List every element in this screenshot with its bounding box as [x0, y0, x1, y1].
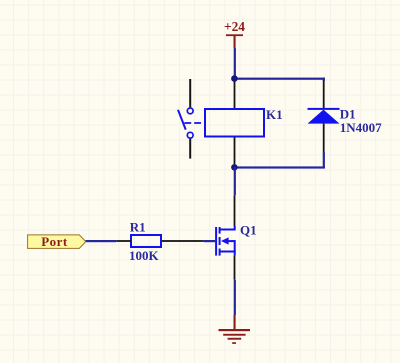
- relay K1 bottom pin: [234, 138, 236, 165]
- ground bar 4: [232, 342, 236, 344]
- ground bar 1: [219, 329, 251, 331]
- ground stub: [234, 315, 236, 330]
- svg-text:1N4007: 1N4007: [340, 120, 382, 135]
- resistor R1 body: [131, 235, 161, 247]
- wire port to resistor: [86, 240, 117, 242]
- node bottom junction: [231, 164, 238, 171]
- switch SW mechanical dashed link to relay: [184, 122, 205, 124]
- diode D1 triangle: [308, 110, 340, 124]
- svg-text:100K: 100K: [129, 248, 160, 263]
- wire junction to mosfet drain: [234, 167, 236, 195]
- svg-text:K1: K1: [266, 107, 283, 122]
- mosfet Q1 body lead: [228, 240, 235, 242]
- mosfet Q1 channel segment drain: [219, 227, 221, 234]
- mosfet Q1 body arrow: [221, 237, 229, 244]
- resistor R1 right pin: [161, 240, 204, 242]
- mosfet Q1 channel segment body: [219, 237, 221, 245]
- switch SW arm: [178, 110, 186, 130]
- diode D1 bottom pin: [323, 124, 325, 152]
- svg-text:+24: +24: [224, 19, 245, 34]
- relay K1 top pin: [234, 82, 236, 109]
- resistor R1 left pin: [116, 240, 131, 242]
- mosfet Q1 right vertical body-source connection: [234, 240, 236, 252]
- wire right bottom vertical: [323, 152, 325, 168]
- diode D1 top pin: [323, 81, 325, 109]
- mosfet Q1 channel segment source: [219, 249, 221, 256]
- wire source pin to ground blue: [234, 280, 236, 315]
- wire gate lead blue: [204, 240, 215, 242]
- relay K1 coil box: [205, 109, 264, 137]
- mosfet Q1 source lead: [220, 251, 236, 253]
- switch SW bottom contact circle: [187, 132, 193, 138]
- wire top horizontal junction to diode branch: [234, 78, 325, 80]
- mosfet Q1 gate bar: [215, 227, 217, 256]
- ground bar 3: [228, 338, 242, 340]
- mosfet Q1 drain lead: [220, 226, 236, 231]
- port label Port: [28, 235, 86, 249]
- ground bar 2: [223, 334, 245, 336]
- switch SW top pin: [189, 79, 191, 107]
- mosfet Q1 drain pin: [234, 195, 236, 226]
- switch SW top contact circle: [187, 108, 193, 114]
- switch SW bottom pin: [189, 139, 191, 159]
- power +24 stub: [234, 35, 236, 48]
- node top junction: [231, 75, 238, 82]
- wire from +24 to top junction: [234, 48, 236, 79]
- svg-text:Q1: Q1: [240, 223, 257, 238]
- diode D1 cathode bar: [308, 108, 340, 110]
- power +24 bar symbol: [226, 34, 243, 36]
- wire bottom horizontal diode to junction: [234, 166, 325, 168]
- wire corner top right: [323, 78, 325, 81]
- svg-text:R1: R1: [130, 220, 146, 235]
- mosfet Q1 source corner stub: [234, 252, 236, 255]
- wire mosfet source to ground: [234, 256, 236, 280]
- svg-text:Port: Port: [41, 234, 68, 249]
